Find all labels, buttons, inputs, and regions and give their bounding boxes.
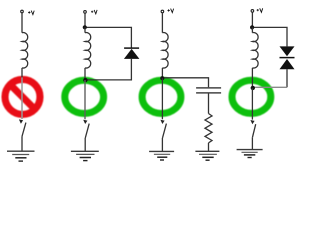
wire junction to diode branch top column 2 <box>85 27 131 47</box>
wire switch to ground column 3 <box>161 138 163 152</box>
TVS diode upper (pointing down) column 4 <box>280 46 295 56</box>
wire junction to TVS branch top column 4 <box>252 27 287 46</box>
wire through green ring column 2 <box>84 80 86 119</box>
green ring (OK) column 2 <box>65 80 104 113</box>
green ring (OK) column 4 <box>232 80 271 113</box>
wire terminal to inductor column 1 <box>21 13 23 33</box>
wire switch to ground column 2 <box>84 138 86 151</box>
prohibition sign (no protection allowed) column 1 <box>5 79 40 114</box>
junction node bottom column 4 <box>251 86 255 90</box>
terminal +V column 3 <box>161 10 164 13</box>
inductor L column 2 <box>85 33 91 69</box>
switch blade column 3 <box>163 124 167 138</box>
TVS diode lower (pointing up) column 4 <box>280 59 295 69</box>
wire inductor to sign column 1 <box>21 68 23 78</box>
switch blade column 4 <box>253 124 256 137</box>
flyback diode D column 2 cathode bar <box>124 47 139 49</box>
wire resistor to ground column 3 snubber <box>208 143 210 151</box>
switch blade column 1 <box>22 123 26 137</box>
wire inductor to junction column 3 <box>161 68 163 78</box>
switch contact arrow column 2 <box>83 120 87 124</box>
resistor R snubber column 3 <box>205 114 212 143</box>
capacitor C snubber column 3 <box>196 88 221 93</box>
terminal +V column 4 <box>251 10 254 13</box>
switch blade column 2 <box>85 124 89 138</box>
junction node top column 2 <box>83 25 87 29</box>
wire terminal to junction column 2 <box>84 14 86 28</box>
label +V column 3 <box>168 9 174 13</box>
inductor L column 4 <box>252 33 258 69</box>
junction node bottom column 2 <box>83 78 87 82</box>
inductor L column 3 <box>162 33 168 69</box>
wire terminal to junction column 4 <box>251 13 253 28</box>
ground column 3 <box>149 151 174 160</box>
wire inductor to lower junction column 4 <box>251 68 253 88</box>
wire capacitor to resistor column 3 <box>208 93 210 113</box>
switch contact arrow column 1 <box>19 119 23 123</box>
TVS center bar column 4 <box>280 57 295 59</box>
inductor L column 1 <box>22 33 28 68</box>
label +V column 4 <box>257 8 263 12</box>
wire junction to inductor column 2 <box>84 27 86 32</box>
wire TVS down column 4 <box>286 69 288 87</box>
wire switch to ground column 1 <box>21 136 23 151</box>
junction node column 3 <box>160 76 164 80</box>
switch contact arrow column 3 <box>160 120 164 124</box>
ground column 1 <box>7 151 35 161</box>
ground column 2 <box>71 151 99 160</box>
wire through green ring column 3 <box>161 78 163 119</box>
junction node top column 4 <box>250 25 254 29</box>
ground column 4 <box>237 150 263 158</box>
wire through green ring column 4 <box>251 88 253 120</box>
terminal +V column 2 <box>84 11 87 14</box>
flyback diode D column 2 triangle <box>124 49 139 59</box>
label +V column 1 <box>28 11 34 15</box>
wire terminal to inductor column 3 <box>161 13 163 33</box>
ground snubber column 3 <box>195 151 219 160</box>
terminal +V column 1 <box>21 10 24 13</box>
label +V column 2 <box>91 10 97 14</box>
switch contact arrow column 4 <box>250 120 254 124</box>
green ring (OK) column 3 <box>142 80 181 113</box>
wire junction to inductor column 4 <box>251 27 253 32</box>
wire switch to ground column 4 <box>251 137 253 149</box>
wire inductor to lower junction column 2 <box>84 68 86 80</box>
wire junction to snubber column 3 <box>162 78 208 88</box>
wire through prohibition sign column 1 <box>21 77 23 119</box>
wire TVS to bottom junction column 4 <box>252 86 287 88</box>
wire diode to bottom junction column 2 <box>85 59 131 80</box>
